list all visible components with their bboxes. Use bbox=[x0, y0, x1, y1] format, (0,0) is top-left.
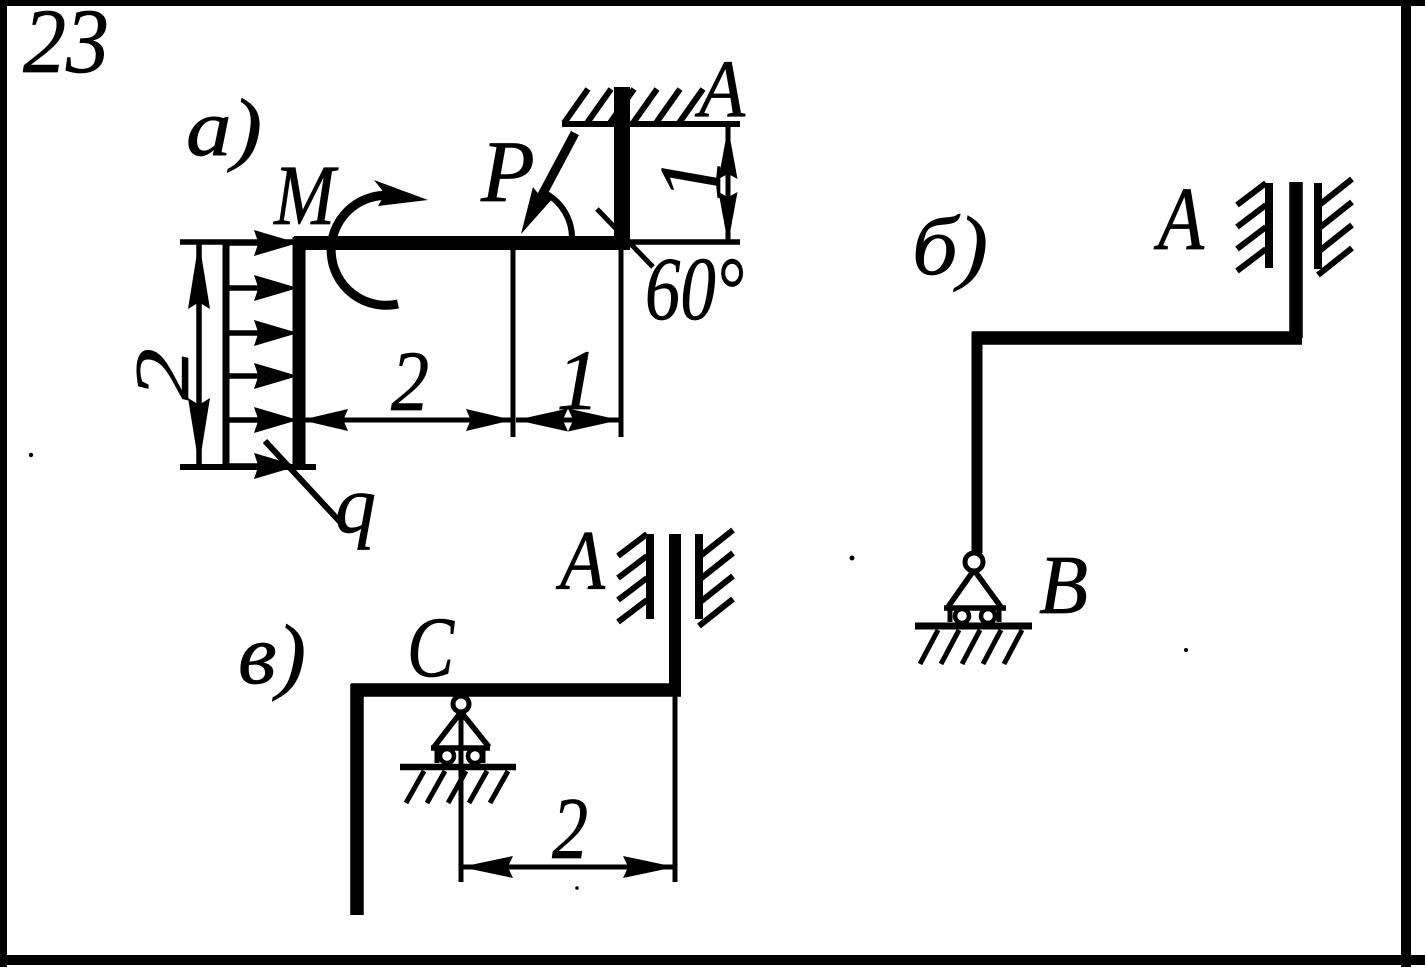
hatching wall right (fig v) bbox=[699, 530, 733, 626]
distributed load arrow 1 bbox=[226, 240, 264, 246]
dimension line 2 (bottom a) bbox=[301, 418, 513, 423]
support C ground line bbox=[400, 764, 516, 771]
leader line 60deg bbox=[597, 209, 653, 267]
distributed load right edge (load application line) bbox=[293, 237, 306, 468]
hatching support A bbox=[564, 89, 703, 123]
dimension line 2 (left vertical) bbox=[196, 241, 202, 466]
distributed load bottom extension line bbox=[180, 464, 316, 470]
svg-text:A: A bbox=[694, 43, 745, 134]
support B ground line bbox=[915, 623, 1032, 630]
distributed load arrow 6 bbox=[226, 463, 264, 469]
extension line below support A bbox=[619, 250, 624, 437]
svg-text:б): б) bbox=[912, 200, 988, 293]
dimension line 2 (fig v) bbox=[461, 865, 675, 870]
extension line left (fig v dim) bbox=[459, 704, 464, 882]
beam v right vertical member bbox=[669, 534, 681, 696]
support B base line bbox=[944, 605, 1006, 611]
distributed load arrow 3 bbox=[226, 330, 264, 336]
support C left cap bbox=[435, 749, 440, 763]
border bottom bbox=[0, 955, 1425, 965]
speck bbox=[575, 886, 579, 890]
support C ground hatching bbox=[406, 771, 508, 803]
svg-text:C: C bbox=[407, 599, 455, 695]
hatching wall left (fig v) bbox=[618, 534, 647, 622]
speck bbox=[850, 556, 855, 561]
border right bbox=[1401, 0, 1411, 967]
distributed load arrow 5 bbox=[226, 417, 264, 423]
angle arc 60deg bbox=[547, 194, 573, 238]
hatching wall right (fig b) bbox=[1318, 179, 1352, 275]
extension line below P point bbox=[511, 250, 516, 437]
svg-text:2: 2 bbox=[391, 333, 429, 429]
beam b right vertical member bbox=[1289, 182, 1303, 338]
beam b left vertical member bbox=[972, 332, 983, 553]
support B triangle bbox=[948, 570, 1001, 607]
wall right bar at A (fig b) bbox=[1314, 183, 1322, 269]
support C triangle bbox=[434, 712, 489, 747]
support B pin circle bbox=[965, 553, 983, 571]
extension line right (fig v dim) bbox=[673, 696, 678, 882]
distributed load arrow 2 bbox=[226, 285, 264, 291]
support C roller 2 bbox=[468, 749, 482, 763]
support B left cap bbox=[948, 609, 953, 622]
speck bbox=[1184, 648, 1188, 652]
svg-text:q: q bbox=[335, 459, 376, 550]
support C base line bbox=[431, 745, 490, 751]
wall right bar at A (fig v) bbox=[695, 534, 703, 619]
support C pin circle bbox=[453, 696, 469, 712]
svg-text:M: M bbox=[272, 147, 338, 243]
svg-text:в): в) bbox=[238, 608, 306, 702]
support B right cap bbox=[997, 609, 1002, 622]
svg-text:A: A bbox=[1154, 170, 1205, 269]
border left bbox=[0, 0, 7, 967]
svg-text:60°: 60° bbox=[645, 240, 744, 339]
svg-text:P: P bbox=[480, 124, 535, 221]
wall left bar at A (fig b) bbox=[1265, 183, 1273, 268]
moment M arrowhead bbox=[374, 180, 428, 206]
speck bbox=[29, 453, 33, 457]
distributed load left edge line bbox=[223, 240, 230, 468]
beam v left vertical member bbox=[350, 684, 364, 915]
support B ground hatching bbox=[920, 630, 1022, 664]
beam v horizontal member bbox=[351, 683, 681, 697]
svg-text:23: 23 bbox=[23, 0, 109, 92]
ceiling line support A bbox=[562, 121, 740, 127]
force P line bbox=[534, 133, 575, 210]
support B roller 2 bbox=[981, 609, 995, 623]
support B roller 1 bbox=[955, 609, 969, 623]
support C right cap bbox=[481, 749, 486, 763]
beam a horizontal member bbox=[294, 236, 630, 250]
svg-text:1: 1 bbox=[643, 157, 740, 201]
wire thin beam axis line a bbox=[180, 239, 740, 245]
support A bar (fixed end) bbox=[614, 87, 630, 250]
svg-text:2: 2 bbox=[552, 781, 588, 878]
hatching wall left (fig b) bbox=[1237, 183, 1266, 271]
svg-text:2: 2 bbox=[119, 348, 205, 400]
support C roller 1 bbox=[440, 749, 454, 763]
svg-text:а): а) bbox=[186, 82, 262, 173]
moment M curved arrow bbox=[331, 195, 398, 305]
svg-text:1: 1 bbox=[557, 332, 600, 428]
distributed load arrow 4 bbox=[226, 373, 264, 379]
dimension line 1 (bottom a) bbox=[516, 418, 620, 423]
border top bbox=[0, 0, 1425, 6]
wall left bar at A (fig v) bbox=[646, 534, 654, 619]
beam b horizontal member bbox=[972, 331, 1302, 345]
dimension line 1 (right vertical) bbox=[726, 127, 731, 244]
leader line q bbox=[265, 441, 342, 524]
force P arrowhead bbox=[521, 187, 553, 234]
svg-text:B: B bbox=[1039, 539, 1088, 632]
svg-text:A: A bbox=[556, 514, 606, 608]
